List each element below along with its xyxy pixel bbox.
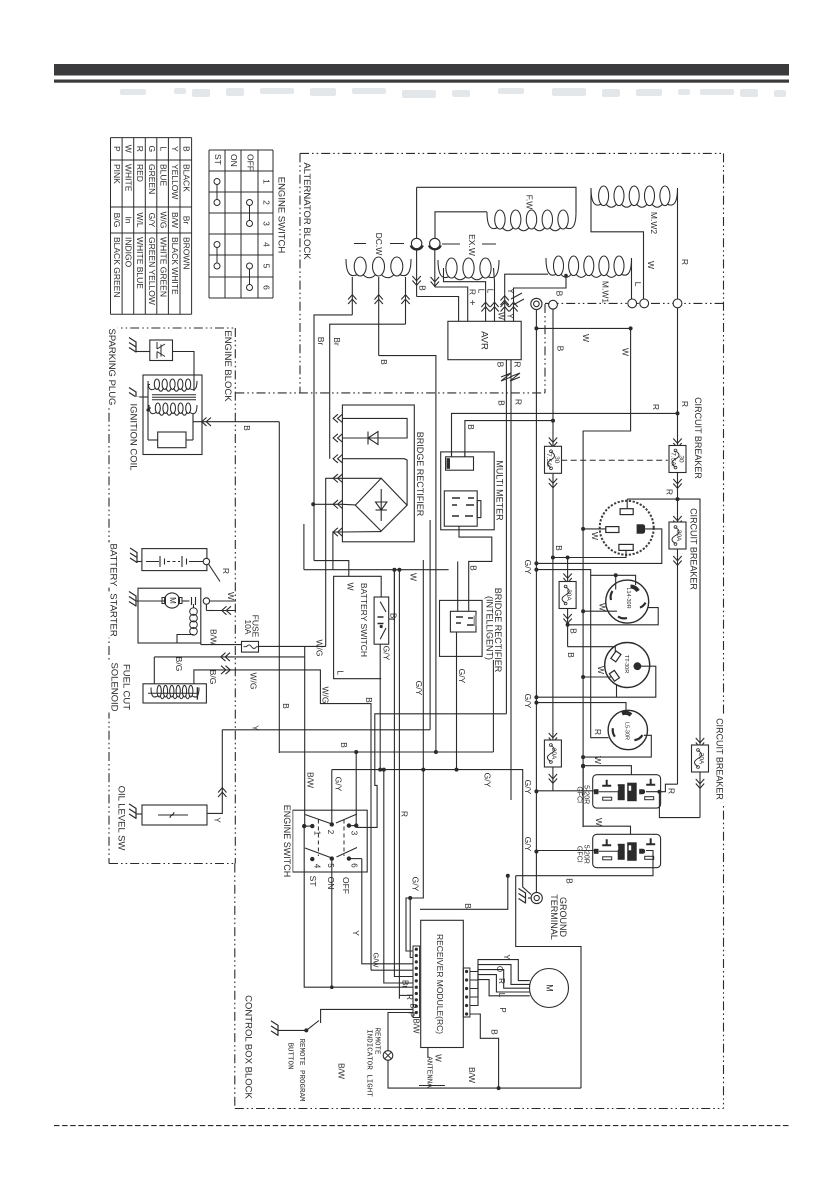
wire meter to intelligent B	[459, 526, 492, 611]
svg-text:BLACK WHITE: BLACK WHITE	[170, 237, 180, 295]
svg-text:B: B	[554, 545, 564, 551]
ground terminal	[531, 892, 542, 903]
svg-text:Y: Y	[506, 288, 516, 294]
wire M.W2 right terminal (R)	[677, 189, 679, 299]
starter relay terminal circle	[203, 598, 209, 604]
svg-text:L: L	[476, 289, 485, 294]
svg-text:30A: 30A	[675, 530, 682, 542]
wire B riser x493.4	[492, 660, 494, 752]
connector terminal circle M.W1-L	[628, 299, 637, 308]
svg-text:B: B	[242, 425, 252, 431]
svg-text:CIRCUIT BREAKER: CIRCUIT BREAKER	[689, 508, 699, 590]
svg-text:OFF: OFF	[341, 877, 351, 894]
wire R long vertical x399.4	[398, 570, 400, 999]
svg-text:G/Y: G/Y	[333, 777, 343, 792]
intelligent connector	[450, 611, 476, 632]
svg-text:2: 2	[326, 830, 335, 835]
svg-text:W: W	[581, 334, 591, 342]
battery terminal circle	[203, 558, 209, 564]
wire arrow6 external down	[333, 532, 343, 570]
svg-text:5-20R: 5-20R	[582, 845, 589, 864]
starter ground	[129, 592, 136, 607]
svg-text:R: R	[513, 399, 523, 405]
wire B/W loop right side	[516, 876, 581, 1088]
svg-text:M: M	[545, 984, 555, 992]
wire receiver pin2 feed	[410, 898, 413, 958]
svg-text:30: 30	[553, 456, 560, 464]
wire GFCI2 right pin loop	[516, 851, 653, 876]
svg-text:In: In	[124, 216, 134, 223]
label CONTROL BOX BLOCK	[242, 995, 254, 1099]
svg-text:Y: Y	[505, 313, 514, 319]
wire GFCI2 bottom B	[506, 874, 510, 878]
wire W horizontal y569.7	[304, 569, 449, 571]
bridge rectifier box	[342, 405, 414, 542]
header bar thin	[54, 80, 789, 83]
svg-text:W: W	[124, 145, 134, 153]
svg-text:5: 5	[261, 264, 271, 269]
svg-text:4: 4	[312, 864, 321, 869]
svg-text:P: P	[112, 146, 122, 152]
svg-text:W: W	[408, 573, 418, 581]
wire bridge arrow4 to diamond top	[342, 477, 381, 479]
coil F.W	[495, 210, 505, 229]
svg-text:ST: ST	[308, 876, 318, 887]
wire R branch to multi meter	[452, 413, 678, 456]
svg-text:W/G: W/G	[320, 687, 330, 704]
svg-text:GFCI: GFCI	[575, 786, 582, 803]
meter connector 2	[444, 491, 477, 526]
wire B lower-left area	[420, 876, 508, 910]
svg-text:IGNITION COIL: IGNITION COIL	[127, 403, 138, 470]
svg-text:W: W	[345, 582, 355, 590]
svg-text:TERMINAL: TERMINAL	[549, 894, 559, 940]
svg-text:MULTI METER: MULTI METER	[495, 460, 505, 521]
ignition condenser box	[158, 432, 186, 448]
svg-text:4: 4	[261, 242, 271, 247]
wire slip ring A down to AVR (B)	[416, 187, 418, 238]
svg-text:L: L	[485, 289, 494, 294]
engine block border	[109, 327, 235, 329]
svg-text:G/Y: G/Y	[523, 694, 533, 709]
battery switch body	[374, 597, 389, 644]
svg-text:3: 3	[349, 831, 358, 836]
alternator block border	[300, 152, 724, 154]
bridge rectifier (intelligent) box	[440, 600, 483, 656]
svg-text:REMOTE PROGRAM: REMOTE PROGRAM	[297, 1038, 305, 1102]
svg-text:30: 30	[678, 455, 685, 463]
starter motor M	[164, 593, 179, 608]
svg-text:6: 6	[261, 285, 271, 290]
svg-text:ANTENNA: ANTENNA	[425, 1056, 433, 1088]
oil level switch box	[142, 805, 207, 825]
wire Y horizontal	[222, 729, 430, 731]
svg-text:B: B	[496, 400, 506, 406]
svg-text:L: L	[633, 282, 643, 287]
svg-text:RECEIVER MODULE(RC): RECEIVER MODULE(RC)	[435, 934, 445, 1034]
svg-text:W/L: W/L	[135, 212, 145, 227]
svg-text:G/Y: G/Y	[523, 780, 533, 795]
solenoid coil	[157, 685, 161, 697]
svg-text:G/Y: G/Y	[523, 837, 533, 852]
svg-text:B/G: B/G	[112, 213, 122, 228]
svg-text:GFCI: GFCI	[575, 846, 582, 863]
wire Y riser to meter area	[429, 520, 431, 730]
svg-text:B/G: B/G	[174, 657, 184, 672]
svg-text:BLUE: BLUE	[158, 164, 168, 187]
wire R to NEMA outlet top	[627, 498, 677, 500]
wire G/Y bus to ground terminal	[332, 770, 531, 895]
wire EX.W left down to AVR	[444, 268, 486, 321]
svg-text:YELLOW: YELLOW	[170, 164, 180, 199]
breaker tie dashed	[561, 459, 668, 461]
engine switch box	[293, 810, 368, 872]
wire M.W1 left terminal	[505, 274, 548, 294]
svg-text:B/W: B/W	[336, 1063, 346, 1079]
oil level ground	[129, 804, 136, 819]
chevrons B/G lower	[221, 666, 226, 674]
svg-text:W/G: W/G	[158, 212, 168, 229]
wire color legend table	[111, 138, 192, 315]
wire L5 right slot to W bus	[583, 735, 651, 757]
intelligent pin from meter area	[457, 561, 459, 611]
svg-text:B/W: B/W	[170, 212, 180, 228]
wire G/Y vertical x423.3 up	[422, 560, 424, 770]
AVR bottom outputs B and R	[505, 360, 507, 714]
motor M	[530, 969, 569, 1008]
wire G/Y to GFCI2 left pin	[534, 850, 538, 854]
label FUEL CUT SOLENOID	[120, 661, 132, 712]
multi meter box	[441, 452, 495, 530]
wire pin5 down	[331, 859, 333, 988]
bridge diamond	[355, 478, 407, 531]
svg-text:W/G: W/G	[314, 640, 324, 657]
starter solenoid bottom wire	[177, 635, 201, 644]
wire B to TT-30R	[568, 647, 616, 652]
GFCI receptacle 2	[593, 834, 661, 867]
svg-text:Br: Br	[332, 337, 342, 346]
svg-text:B/W: B/W	[467, 1067, 477, 1083]
svg-text:ST: ST	[213, 154, 223, 165]
page bottom dashed separator	[54, 1125, 790, 1127]
receiver right pin strip	[463, 968, 470, 1017]
svg-text:R: R	[512, 361, 522, 367]
wire W from starter switch	[210, 600, 236, 602]
svg-text:BATTERY: BATTERY	[107, 544, 118, 588]
svg-text:BATTERY SWITCH: BATTERY SWITCH	[359, 583, 369, 657]
svg-text:CIRCUIT BREAKER: CIRCUIT BREAKER	[693, 397, 703, 479]
ignition coil core	[152, 394, 196, 396]
diode inside diamond	[380, 489, 382, 521]
svg-text:TT-30R: TT-30R	[623, 655, 629, 673]
engine switch pins top 1 2 3	[302, 824, 306, 828]
svg-text:L: L	[335, 670, 345, 675]
svg-text:INDICATOR LIGHT: INDICATOR LIGHT	[365, 1029, 373, 1097]
svg-text:M.W2: M.W2	[649, 212, 659, 234]
wire EX.W right leg	[494, 268, 495, 321]
wire DC.W mid terminal B	[378, 277, 380, 356]
fuel cut solenoid box	[143, 684, 206, 703]
connector terminal circle M.W2-R	[673, 299, 682, 308]
label IGNITION COIL	[127, 397, 139, 478]
engine switch coupler dashed links	[317, 820, 319, 857]
wire 14-50R bottom slot to B	[553, 550, 626, 557]
svg-text:R: R	[593, 729, 603, 735]
svg-text:B: B	[417, 285, 427, 291]
connector terminal circle M.W2-W	[640, 299, 649, 308]
svg-text:W: W	[226, 592, 236, 600]
coil M.W1	[554, 256, 564, 276]
NEMA 14-50R receptacle	[600, 501, 654, 555]
svg-text:L: L	[158, 146, 168, 151]
wire intelligent G/Y down	[456, 632, 458, 770]
wire Br to battery switch	[389, 570, 395, 619]
wire M.W1 tap B	[554, 276, 566, 288]
ignition coil left rail	[147, 384, 149, 440]
svg-text:6: 6	[349, 863, 358, 868]
svg-text:3: 3	[261, 221, 271, 226]
wire M.W2 left terminal (W)	[591, 189, 644, 299]
svg-text:BLACK GREEN: BLACK GREEN	[112, 237, 122, 297]
AVR top input wires with arrows	[481, 307, 489, 312]
svg-text:R: R	[467, 289, 477, 295]
svg-text:AVR: AVR	[478, 331, 489, 350]
slip ring B	[430, 238, 440, 248]
bridge rectifier pin arrows	[338, 414, 343, 422]
svg-text:W: W	[593, 756, 603, 764]
wire DC.W right terminal Br	[405, 277, 407, 324]
wire G/Y to pin2	[331, 770, 333, 825]
svg-text:10A: 10A	[243, 619, 253, 634]
svg-text:WHITE BLUE: WHITE BLUE	[135, 237, 145, 289]
svg-text:B: B	[495, 362, 505, 368]
svg-text:BROWN: BROWN	[182, 237, 192, 270]
wire pin6 down to receiver pin3 (Y)	[362, 859, 413, 964]
starter solenoid coil	[190, 608, 198, 616]
sparking plug ground	[129, 338, 136, 353]
wire R from 30A down to GFCI1	[677, 549, 679, 784]
circuit breaker 30/7.5A right	[677, 436, 679, 446]
svg-text:G/Y: G/Y	[414, 681, 424, 696]
motor lead wires nested brackets	[470, 960, 530, 981]
label ENGINE BLOCK	[222, 329, 234, 404]
svg-text:Y: Y	[212, 817, 222, 823]
wire arrow5 external to vertical	[313, 503, 342, 505]
svg-text:B: B	[568, 628, 578, 634]
svg-text:SOLENOID: SOLENOID	[108, 662, 119, 711]
svg-text:O: O	[495, 966, 504, 972]
svg-text:G/Y: G/Y	[381, 646, 391, 661]
label OIL LEVEL SW	[115, 781, 127, 856]
wire B horizontal y752	[279, 751, 493, 753]
svg-text:+: +	[466, 300, 477, 306]
wire G/Y to L5 dark slot	[534, 701, 538, 705]
engine switch blades top	[305, 814, 357, 824]
wire W/G from solenoid to receiver	[194, 670, 371, 970]
svg-text:7.5A: 7.5A	[670, 452, 677, 466]
svg-text:R: R	[399, 811, 409, 817]
wire W to GFCI2	[581, 764, 585, 768]
wire B/G upper stub	[153, 657, 155, 684]
svg-text:(INTELLIGENT): (INTELLIGENT)	[485, 596, 495, 660]
right outer dash-dot border	[723, 153, 725, 1108]
remote program button	[271, 1021, 278, 1036]
control box block border	[234, 864, 236, 1109]
label SPARKING PLUG	[106, 327, 118, 408]
wire Y from oil level switch	[207, 730, 222, 814]
svg-text:L: L	[497, 993, 506, 998]
svg-text:G/Y: G/Y	[410, 877, 420, 892]
wire B from ignition coil to engine stop	[193, 421, 279, 423]
svg-text:B: B	[466, 424, 476, 430]
svg-text:W: W	[590, 532, 600, 540]
svg-text:RED: RED	[135, 164, 145, 182]
svg-text:B: B	[364, 697, 374, 703]
svg-text:STARTER: STARTER	[107, 593, 118, 637]
svg-text:W: W	[594, 818, 604, 826]
svg-text:ALTERNATOR BLOCK: ALTERNATOR BLOCK	[301, 162, 312, 260]
receiver left pin strip	[413, 946, 420, 1018]
svg-text:Y: Y	[502, 954, 511, 960]
wire B/W starter to fuse	[200, 643, 202, 645]
circuit breaker 20A right	[696, 738, 704, 743]
wire slip ring B down to AVR (R+)	[434, 249, 436, 287]
wire arrow4 external down to fuse (W/G)	[326, 478, 343, 646]
coil DC.W	[354, 257, 366, 276]
wire B to L14 right slot	[568, 608, 659, 625]
wire DC.W left terminal Br	[351, 277, 353, 315]
engine switch blades bottom	[305, 848, 357, 858]
L5-30R receptacle	[608, 710, 647, 749]
wire W to GFCI1 (top feed)	[581, 764, 585, 768]
engine switch pins bottom 4 5 6	[310, 857, 314, 861]
svg-text:M.W1: M.W1	[600, 281, 610, 303]
svg-text:ENGINE BLOCK: ENGINE BLOCK	[222, 330, 233, 402]
svg-text:F.W: F.W	[524, 195, 534, 210]
wire bridge arrow5 to diamond left	[342, 503, 355, 506]
ignition coil secondary winding	[155, 403, 160, 413]
wire AVR B to engine switch pin3	[356, 714, 506, 828]
svg-text:CONTROL BOX BLOCK: CONTROL BOX BLOCK	[242, 995, 253, 1099]
wire fuse out to bridge riser	[259, 645, 326, 647]
wire F.W right to slip ring A	[417, 187, 576, 212]
battery switch outer path	[334, 576, 382, 678]
wire W from connector row	[535, 310, 537, 894]
wire B from bus to receiver pin6	[382, 768, 386, 772]
svg-text:W: W	[597, 603, 607, 611]
wire W down to outlet bus	[583, 328, 631, 827]
svg-text:G/W: G/W	[372, 953, 381, 969]
svg-text:R: R	[221, 568, 231, 574]
svg-text:1: 1	[312, 831, 321, 836]
svg-text:L5-30R: L5-30R	[624, 722, 630, 740]
svg-text:B: B	[489, 1029, 499, 1035]
svg-text:ON: ON	[229, 154, 239, 167]
R junction below breaker	[676, 497, 680, 501]
starter box	[138, 588, 201, 643]
svg-text:G/Y: G/Y	[147, 213, 157, 228]
svg-text:W: W	[620, 348, 630, 356]
wire branch to fuel solenoid (B/G)	[154, 656, 304, 658]
svg-text:BLACK: BLACK	[182, 164, 192, 192]
svg-text:5: 5	[326, 863, 335, 868]
svg-text:B: B	[463, 903, 473, 909]
svg-text:WHITE GREEN: WHITE GREEN	[158, 237, 168, 297]
header bar thick	[54, 64, 789, 76]
svg-text:R: R	[680, 259, 690, 265]
svg-text:W: W	[596, 666, 606, 674]
svg-text:Br: Br	[388, 613, 397, 621]
wire G/Y to L14 area	[534, 568, 538, 572]
svg-text:W: W	[496, 312, 505, 320]
wire W to L14-30R bottom slot	[581, 609, 585, 613]
svg-text:2: 2	[261, 200, 271, 205]
svg-text:W: W	[433, 1054, 442, 1062]
svg-text:B/W: B/W	[411, 1018, 420, 1034]
op-amp AVR box	[448, 321, 521, 359]
svg-text:R: R	[651, 404, 661, 410]
wire M.W1 right terminal to connector (L)	[631, 259, 633, 300]
svg-text:20A: 20A	[550, 748, 557, 760]
antenna W	[427, 1048, 429, 1059]
svg-text:G/Y: G/Y	[457, 669, 467, 684]
svg-text:EX.W: EX.W	[467, 234, 477, 256]
fuse 10A box	[242, 641, 259, 652]
svg-text:B: B	[379, 359, 389, 365]
wire Br vertical x314 down to battery switch area	[313, 560, 315, 562]
svg-text:R: R	[666, 788, 676, 794]
wire bridge arrow6 to diamond bottom	[342, 531, 381, 533]
wire G/Y bus down to receiver pin1	[406, 770, 423, 951]
svg-text:G: G	[147, 145, 157, 152]
sparking plug box	[136, 351, 150, 353]
slip ring A	[411, 238, 421, 248]
svg-text:G/Y: G/Y	[523, 560, 533, 575]
wire 14-50R top slot to R	[626, 499, 628, 509]
ignition secondary out	[192, 414, 194, 440]
svg-text:GREEN YELLOW: GREEN YELLOW	[147, 237, 157, 305]
label CIRCUIT BREAKER (bottom)	[713, 715, 725, 803]
TT-30R receptacle	[605, 643, 650, 688]
ignition coil outer box	[143, 375, 202, 455]
svg-text:SPARKING PLUG: SPARKING PLUG	[106, 329, 117, 406]
svg-text:PINK: PINK	[112, 164, 122, 184]
wire TT ground loop	[536, 666, 655, 697]
wire B/W fuse branch to engine switch	[304, 646, 306, 826]
svg-text:1: 1	[261, 179, 271, 184]
svg-text:ENGINE SWITCH: ENGINE SWITCH	[282, 805, 292, 878]
label ALTERNATOR BLOCK	[301, 162, 313, 260]
wire B down x279.3	[278, 422, 280, 753]
svg-text:Br: Br	[182, 216, 192, 225]
svg-text:20A: 20A	[697, 753, 704, 765]
wire Br from W-line to receiver pin5	[394, 570, 413, 977]
svg-text:Br: Br	[316, 337, 326, 346]
svg-text:BUTTON: BUTTON	[286, 1042, 294, 1069]
svg-text:B: B	[566, 652, 576, 658]
ignition coil primary winding	[154, 379, 159, 389]
wire from 20A to GFCI1 left pin	[534, 789, 538, 793]
bridge top loop with diode	[342, 418, 407, 438]
svg-text:ENGINE SWITCH: ENGINE SWITCH	[275, 177, 286, 254]
svg-text:B: B	[281, 703, 291, 709]
GFCI receptacle 1	[593, 775, 661, 808]
circuit breaker 30/7.5A left	[549, 438, 557, 443]
wire B to pin3	[355, 752, 357, 826]
svg-text:Y: Y	[250, 725, 260, 731]
wire B bus from connector	[552, 309, 554, 445]
starter switch blade from battery	[209, 564, 221, 582]
